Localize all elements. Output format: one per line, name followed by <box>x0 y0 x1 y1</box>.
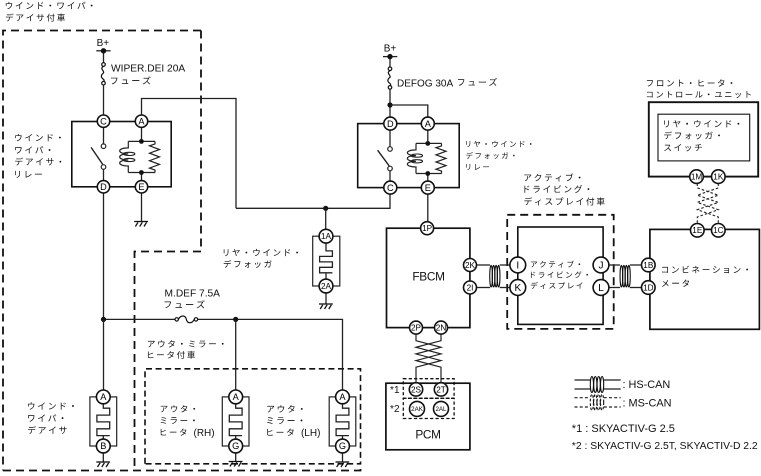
svg-text:B+: B+ <box>97 38 110 49</box>
svg-text:E: E <box>425 183 431 193</box>
svg-text:2AL: 2AL <box>435 406 447 413</box>
svg-text:I: I <box>516 261 519 272</box>
label: wiper deicer equipped cars line1 <box>6 2 93 9</box>
node B+ (wiper deicer feed) bar <box>96 50 110 52</box>
PCM pin 2AL <box>434 401 449 416</box>
label: RH mirror heater line3 <box>161 428 187 435</box>
PCM pin 2S <box>409 383 422 396</box>
RH mirror heater pin A <box>229 390 243 404</box>
label: combination meter line1 <box>662 266 748 274</box>
svg-text:2S: 2S <box>411 385 422 394</box>
wire: RH heater pin G to ground <box>235 453 237 461</box>
relay1 coil and resistor: bottom bar <box>128 172 155 174</box>
svg-text:1B: 1B <box>643 261 654 270</box>
HS-CAN twisted pair FBCM 2P/2N to PCM 2S/2T <box>416 334 441 383</box>
display pin I <box>510 257 526 273</box>
label: active driving display line1 <box>531 261 580 268</box>
svg-text:PCM: PCM <box>415 427 440 441</box>
meter pin 1B <box>642 258 656 272</box>
svg-text:1A: 1A <box>321 232 332 241</box>
wire: loops to meter 1B <box>630 264 642 266</box>
relay2 switch contact <box>378 147 393 171</box>
label: rear window defogger relay line1 <box>466 141 531 147</box>
label: LH mirror heater line1 <box>267 405 303 413</box>
label: front heater control unit line2 <box>647 91 751 98</box>
wiper deicer heating element <box>97 404 110 439</box>
wire: relay1 pin A up and over to main rail <box>142 99 237 209</box>
svg-text:DEFOG 30A: DEFOG 30A <box>397 78 453 89</box>
wire: relay2 coil bar to pin E <box>427 174 429 182</box>
svg-text:A: A <box>425 119 432 129</box>
junction: rail to rear defogger <box>323 206 328 211</box>
node B+ (defogger feed) <box>387 54 392 59</box>
HS-CAN twisted pair loops (display to meter) <box>620 265 630 287</box>
junction: relay1 coil top <box>139 139 144 144</box>
wiper deicer heating element outline <box>90 397 117 446</box>
svg-text:B: B <box>100 441 106 451</box>
FBCM pin 1P <box>421 222 434 235</box>
junction: relay1 coil bottom <box>139 170 144 175</box>
junction: relay2 coil bottom <box>425 171 430 176</box>
wire: relay2 pin A to coil bar <box>427 130 429 143</box>
relay1 coil and resistor: coil winding <box>120 141 129 172</box>
svg-text:1E: 1E <box>692 226 703 235</box>
svg-text:L: L <box>598 283 604 294</box>
junction: relay2 coil top <box>425 141 430 146</box>
relay1 pin D <box>97 181 109 193</box>
label: wiper deicer relay line4 <box>15 171 42 178</box>
legend MS-CAN loops <box>590 394 603 410</box>
FBCM pin 2K <box>464 259 477 272</box>
label: active driving display line3 <box>531 282 583 289</box>
ground below relay1 pin E <box>134 222 148 227</box>
dashed option box: wiper deicer equipped cars (outline) <box>3 31 201 471</box>
wire: relay1 pin A to coil bar <box>141 128 143 142</box>
svg-text:J: J <box>599 261 604 272</box>
svg-text:2T: 2T <box>436 385 446 394</box>
wire: relay1 pin E to ground <box>141 193 143 221</box>
label: M.DEF fuse line2 (fuse) <box>165 300 205 308</box>
svg-text:K: K <box>514 283 521 294</box>
wire: LH heater pin G to ground <box>342 453 344 462</box>
FBCM pin 2P <box>410 321 423 334</box>
combination meter box <box>650 229 760 329</box>
label: rear window defogger switch line2 <box>664 131 720 139</box>
label: outer mirror heater equipped cars line1 <box>148 340 224 347</box>
svg-text:A: A <box>138 116 145 126</box>
wire: main rail to defogger relay pin C <box>236 194 390 208</box>
svg-text:1M: 1M <box>691 173 703 182</box>
wire: relay1 coil bar to pin E <box>141 173 143 181</box>
svg-text:A: A <box>100 392 107 402</box>
FBCM box <box>387 228 470 327</box>
defogger grid pin 1A <box>319 229 333 243</box>
svg-text:(RH): (RH) <box>194 428 215 439</box>
label: active driving display equipped cars line2 <box>524 185 589 193</box>
ground below defogger grid 2A <box>319 304 333 309</box>
label: active driving display line2 <box>531 271 588 278</box>
legend HS-CAN symbol wires <box>575 380 621 389</box>
svg-text:B+: B+ <box>384 44 397 55</box>
RH mirror heater pin G <box>229 439 243 453</box>
relay2 coil and resistor: resistor <box>436 143 446 173</box>
active driving display box <box>518 227 603 324</box>
svg-text:*1 : SKYACTIV-G 2.5: *1 : SKYACTIV-G 2.5 <box>572 423 675 435</box>
label: wiper deicer relay line3 <box>15 158 61 166</box>
relay2 coil and resistor: top bar <box>416 142 442 144</box>
meter pin 1E <box>691 224 705 238</box>
label: wiper deicer element line1 <box>28 402 74 409</box>
svg-text:G: G <box>339 441 346 451</box>
wire: FBCM 2K to display I (CAN H) <box>477 264 491 266</box>
svg-text:C: C <box>387 183 394 193</box>
svg-text:2AK: 2AK <box>411 406 424 413</box>
wire: display J to meter 1B (CAN H) <box>609 264 620 266</box>
LH mirror heater element <box>336 404 349 439</box>
MS-CAN twisted pair heater control 1M/1K to meter 1E/1C <box>697 183 718 223</box>
wire: relay1 switch to pin D <box>103 169 105 180</box>
svg-text:E: E <box>138 182 144 192</box>
label: RH mirror heater line1 <box>161 405 195 412</box>
ground below wiper deicer pin B <box>96 462 110 467</box>
label: wiper deicer relay line2 <box>15 146 50 153</box>
wire: B+ to WIPER.DEI fuse <box>103 51 105 63</box>
junction: DEFOG feed splits to relay pins D and A <box>387 102 392 107</box>
label: rear window defogger relay line2 <box>466 152 515 159</box>
label: active driving display equipped cars line1 <box>524 173 580 181</box>
rear window defogger grid element <box>313 236 340 286</box>
svg-text:*2: *2 <box>390 404 400 415</box>
HS-CAN twisted pair loops (FBCM to display) <box>490 265 500 287</box>
label: LH mirror heater line2 <box>267 417 302 424</box>
display pin J <box>593 257 609 273</box>
rear window defogger switch inner box <box>658 114 750 161</box>
fuse M.DEF 7.5A <box>175 316 198 323</box>
svg-text:M.DEF 7.5A: M.DEF 7.5A <box>165 288 221 299</box>
defogger grid pin 2A <box>319 279 333 293</box>
svg-text:2A: 2A <box>321 282 332 291</box>
label: wiper deicer relay line1 <box>15 134 61 141</box>
label: outer mirror heater equipped cars line2 <box>148 351 195 359</box>
svg-text:D: D <box>387 119 394 129</box>
relay2 coil and resistor: bottom bar <box>416 173 442 175</box>
relay2 pin A <box>421 117 434 130</box>
svg-text:: HS-CAN: : HS-CAN <box>623 379 671 391</box>
wire: FBCM 2I to display K (CAN L) <box>477 287 491 289</box>
label: rear window defogger grid line2 <box>224 260 272 268</box>
RH mirror heater element outline <box>222 397 249 446</box>
relay1 coil and resistor: top bar <box>128 140 155 142</box>
wire: relay2 pin D to switch contact <box>389 130 391 147</box>
label: DEFOG fuse (fuse) <box>458 78 497 86</box>
label: rear window defogger grid line1 <box>224 249 298 256</box>
LH mirror heater pin G <box>336 439 350 453</box>
wire: M.DEF rail left of fuse <box>104 318 176 320</box>
label: rear window defogger relay line3 <box>466 164 489 170</box>
relay2 pin E <box>421 181 434 194</box>
label: LH mirror heater line3 <box>267 428 294 436</box>
svg-text:2N: 2N <box>436 324 447 333</box>
PCM pin 2T <box>434 383 447 396</box>
label: wiper deicer equipped cars line2 <box>6 13 65 21</box>
svg-text:1C: 1C <box>713 226 724 235</box>
heater control pin 1M <box>690 170 704 184</box>
svg-text:(LH): (LH) <box>301 428 320 439</box>
svg-text:FBCM: FBCM <box>412 269 444 283</box>
node B+ (wiper deicer feed) <box>101 48 106 53</box>
wire: rail down to defogger grid 1A <box>325 208 327 229</box>
wire: M.DEF rail to LH mirror heater <box>198 319 343 390</box>
wire: loops to display K <box>500 287 510 289</box>
FBCM pin 2N <box>435 321 448 334</box>
label: WIPER.DEI fuse line2 (fuse) <box>111 76 151 84</box>
relay box: wiper deicer relay <box>72 122 171 187</box>
wire: drop to RH mirror heater pin A <box>235 319 237 390</box>
junction: M.DEF rail at RH heater drop <box>233 317 238 322</box>
wire: loops to meter 1D <box>630 287 642 289</box>
heater control pin 1K <box>712 170 726 184</box>
relay2 pin C <box>384 181 397 194</box>
meter pin 1C <box>712 224 726 238</box>
defogger grid heating element <box>320 243 333 279</box>
svg-text:1D: 1D <box>643 283 654 292</box>
fuse WIPER.DEI 20A <box>101 63 105 85</box>
wire: display L to meter 1D (CAN L) <box>609 287 620 289</box>
svg-text:*2 : SKYACTIV-G 2.5T, SKYACTIV: *2 : SKYACTIV-G 2.5T, SKYACTIV-D 2.2 <box>572 441 758 452</box>
display pin L <box>593 280 609 296</box>
junction: M.DEF rail at deicer drop <box>101 317 106 322</box>
svg-text:2I: 2I <box>467 283 474 292</box>
node B+ (defogger feed) bar <box>383 56 397 58</box>
relay2 pin D <box>384 117 397 130</box>
PCM pin 2AK <box>410 401 425 416</box>
wire: deicer pin A up to rail <box>103 319 105 390</box>
wire: defogger grid 2A to ground <box>325 293 327 304</box>
svg-text:1P: 1P <box>422 224 433 233</box>
LH mirror heater pin A <box>336 390 350 404</box>
relay1 pin E <box>135 181 147 193</box>
FBCM pin 2I <box>464 281 477 294</box>
wire: fuse to relay1 pin C <box>103 85 105 115</box>
svg-text:A: A <box>339 392 346 402</box>
relay1 pin C <box>97 115 109 127</box>
dashed option box: outer mirror heater equipped cars (outline) <box>3 252 361 471</box>
wire: relay2 pin E down to FBCM 1P <box>427 194 429 222</box>
svg-text:2K: 2K <box>465 261 476 270</box>
ground below LH mirror heater pin G <box>336 462 350 467</box>
wire: DEFOG fuse to junction <box>389 89 391 117</box>
dashed option box: active driving display equipped cars <box>507 215 614 329</box>
label: wiper deicer element line3 <box>28 426 67 434</box>
svg-text:D: D <box>100 182 107 192</box>
svg-text:2P: 2P <box>411 324 422 333</box>
ground below RH mirror heater pin G <box>229 462 243 467</box>
dashed inner box around outer mirror heaters <box>145 369 361 464</box>
relay1 pin A <box>135 115 147 127</box>
label: RH mirror heater line2 <box>161 417 195 424</box>
relay box: rear window defogger relay <box>358 124 460 188</box>
relay2 coil and resistor: coil winding <box>407 143 416 173</box>
LH mirror heater element outline <box>329 397 356 446</box>
front heater control unit box <box>649 102 758 176</box>
wire: relay1 pin D down to M.DEF rail <box>103 193 105 319</box>
svg-text:A: A <box>233 392 240 402</box>
wire: relay1 pin C to switch contact <box>103 128 105 144</box>
svg-text:1K: 1K <box>713 173 724 182</box>
label: rear window defogger switch line1 <box>664 120 739 127</box>
svg-text:G: G <box>232 441 239 451</box>
svg-text:WIPER.DEI 20A: WIPER.DEI 20A <box>111 64 185 75</box>
fuse DEFOG 30A <box>388 67 392 89</box>
wiper deicer pin A <box>96 390 110 404</box>
legend MS-CAN symbol wires <box>575 398 621 407</box>
meter pin 1D <box>642 281 656 295</box>
PCM box <box>386 383 470 450</box>
svg-text:*1: *1 <box>390 385 400 396</box>
wire: junction over to relay2 pin A <box>390 105 428 117</box>
label: wiper deicer element line2 <box>28 414 63 421</box>
dotted box around PCM pins 2AK/2AL (*2) <box>403 398 454 418</box>
svg-text:C: C <box>100 116 107 126</box>
legend HS-CAN loops <box>590 377 603 393</box>
relay1 switch contact <box>91 144 106 169</box>
wire: loops to display I <box>500 264 510 266</box>
svg-text:: MS-CAN: : MS-CAN <box>623 397 672 409</box>
dotted box around PCM pins 2S/2T (*1) <box>403 379 454 399</box>
label: combination meter line2 <box>662 279 689 286</box>
wiper deicer pin B <box>96 439 110 453</box>
label: rear window defogger switch line3 <box>664 144 702 151</box>
label: active driving display equipped cars line3 <box>524 197 604 205</box>
RH mirror heater element <box>229 404 242 439</box>
display pin K <box>510 280 526 296</box>
wire: deicer pin B to ground <box>102 453 104 462</box>
wire: B+ to DEFOG fuse <box>389 57 391 67</box>
label: front heater control unit line1 <box>647 79 732 86</box>
wire: relay2 switch to pin C <box>389 171 391 181</box>
relay1 coil and resistor: resistor <box>150 141 160 172</box>
